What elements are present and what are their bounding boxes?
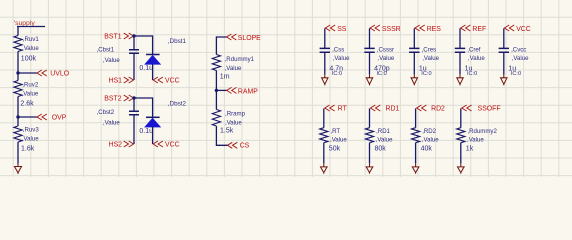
svg-text:,Rdummy1: ,Rdummy1 xyxy=(225,56,255,63)
svg-text:VCC: VCC xyxy=(516,26,531,33)
wire Css to ground xyxy=(324,52,326,74)
off-page connector RD1 xyxy=(371,105,381,111)
wire RT to RT xyxy=(323,108,325,127)
svg-text:,Value: ,Value xyxy=(422,136,439,143)
off-page connector REF xyxy=(461,25,471,31)
svg-text:80k: 80k xyxy=(375,145,387,152)
svg-text:BST2: BST2 xyxy=(104,95,121,102)
wire REF to Cref xyxy=(459,28,461,48)
ground arrow RD1 xyxy=(366,164,373,174)
svg-text:,Value: ,Value xyxy=(225,119,242,126)
off-page connector RES xyxy=(415,25,425,31)
ground arrow RT xyxy=(321,164,328,174)
svg-text:,Value: ,Value xyxy=(330,136,347,143)
svg-text:VCC: VCC xyxy=(165,77,180,84)
svg-text:,Value: ,Value xyxy=(467,136,484,143)
svg-text:,Value: ,Value xyxy=(377,55,394,62)
wire SS to Css xyxy=(324,28,326,48)
svg-text:,Value: ,Value xyxy=(333,55,350,62)
svg-text:,Cvcc: ,Cvcc xyxy=(511,47,526,54)
svg-text:,Value: ,Value xyxy=(22,45,39,52)
wire to UVLO connector xyxy=(18,72,37,74)
svg-text:,Cref: ,Cref xyxy=(467,47,481,54)
resistor Rdummy2 xyxy=(457,128,465,143)
svg-text:0.1u: 0.1u xyxy=(139,65,153,72)
capacitor Css xyxy=(320,48,330,52)
wire Rdummy1 to Rramp xyxy=(215,71,217,110)
svg-text:,Rramp: ,Rramp xyxy=(225,111,246,118)
svg-text:,Dbst1: ,Dbst1 xyxy=(168,38,187,45)
svg-text:SSSR: SSSR xyxy=(382,26,401,33)
wire Cvcc to ground xyxy=(503,52,505,74)
diode Dbst2 xyxy=(146,116,160,118)
svg-text:,Value: ,Value xyxy=(22,90,39,97)
svg-text:0.1u: 0.1u xyxy=(139,128,153,135)
svg-text:1m: 1m xyxy=(220,74,230,81)
svg-text:SS: SS xyxy=(337,26,347,33)
wire VCC to Cvcc xyxy=(503,28,505,48)
ground arrow SSSR xyxy=(366,75,372,86)
wire Ruv3 to ground xyxy=(17,142,19,164)
svg-text:HS2: HS2 xyxy=(109,141,123,148)
off-page connector VCC (section 2) xyxy=(153,141,163,147)
node BST1 junction xyxy=(132,34,135,37)
off-page connector SS xyxy=(325,25,335,31)
wire RT to ground xyxy=(323,143,325,164)
ground arrow SS xyxy=(322,75,328,86)
svg-text:,Ruv2: ,Ruv2 xyxy=(22,82,39,89)
svg-text:,Cbst2: ,Cbst2 xyxy=(97,109,115,116)
svg-text:,Cres: ,Cres xyxy=(422,47,437,54)
wire Rramp to CS xyxy=(216,126,227,145)
svg-text:,Cbst1: ,Cbst1 xyxy=(97,47,115,54)
svg-text:IC:0: IC:0 xyxy=(467,71,477,77)
svg-text:,RT: ,RT xyxy=(330,128,340,135)
capacitor Cbst2 xyxy=(129,111,139,114)
wire supply bar xyxy=(17,26,45,28)
svg-text:RES: RES xyxy=(427,26,442,33)
off-page connector RT xyxy=(325,105,335,111)
svg-text:,Value: ,Value xyxy=(376,136,393,143)
svg-text:,Value: ,Value xyxy=(512,55,529,62)
wire SSSR to Csssr xyxy=(369,28,371,48)
svg-text:,Css: ,Css xyxy=(332,47,344,54)
svg-text:IC:0: IC:0 xyxy=(421,71,431,77)
svg-text:1.6k: 1.6k xyxy=(21,145,35,152)
svg-text:,Value: ,Value xyxy=(468,55,485,62)
svg-text:RT: RT xyxy=(338,106,348,113)
capacitor Cbst1 xyxy=(129,50,139,53)
wire to OVP connector xyxy=(18,116,37,118)
svg-text:,RD2: ,RD2 xyxy=(422,128,436,135)
wire Dbst2 to VCC xyxy=(152,127,154,144)
wire Cres to ground xyxy=(413,52,415,74)
svg-text:VCC: VCC xyxy=(165,141,180,148)
svg-text:HS1: HS1 xyxy=(109,77,123,84)
ground arrow column1 xyxy=(15,164,22,174)
resistor Rdummy1 xyxy=(212,55,220,71)
svg-text:40k: 40k xyxy=(421,145,433,152)
svg-text:100k: 100k xyxy=(21,55,37,62)
wire BST1 top xyxy=(134,36,153,54)
svg-text:,Ruv3: ,Ruv3 xyxy=(23,127,40,134)
resistor Ruv1 xyxy=(14,36,22,52)
wire Dbst1 to VCC xyxy=(152,64,154,80)
node UVLO junction xyxy=(16,71,19,74)
wire SSOFF to Rdummy2 xyxy=(460,108,462,127)
off-page connector SSSR xyxy=(370,25,380,31)
svg-text:UVLO: UVLO xyxy=(50,70,69,77)
svg-text:RD1: RD1 xyxy=(386,106,400,113)
resistor RT xyxy=(320,128,328,143)
svg-text:IC:0: IC:0 xyxy=(377,71,387,77)
wire SLOPE to Rdummy1 xyxy=(216,37,226,55)
ground arrow RD2 xyxy=(412,164,419,174)
off-page connector VCC (section 1) xyxy=(153,77,163,83)
svg-text:CS: CS xyxy=(240,143,250,150)
ground arrow RES xyxy=(411,75,417,86)
svg-text:1.5k: 1.5k xyxy=(220,128,234,135)
off-page connector CS xyxy=(228,142,238,148)
svg-text:,Value: ,Value xyxy=(422,55,439,62)
svg-text:RAMP: RAMP xyxy=(238,88,258,95)
svg-text:REF: REF xyxy=(472,26,486,33)
wire RD1 to ground xyxy=(369,143,371,164)
svg-text:,Value: ,Value xyxy=(225,65,242,72)
off-page connector UVLO xyxy=(37,70,47,76)
diode Dbst1 xyxy=(146,54,160,56)
capacitor Cvcc xyxy=(499,48,509,52)
svg-text:,Csssr: ,Csssr xyxy=(377,47,394,54)
off-page connector VCC xyxy=(504,25,514,31)
svg-text:,Value: ,Value xyxy=(22,135,39,142)
svg-text:1k: 1k xyxy=(466,145,474,152)
svg-text:,Dbst2: ,Dbst2 xyxy=(168,101,187,108)
wire Rdummy2 to ground xyxy=(460,143,462,164)
wire RD2 to RD2 xyxy=(415,108,417,127)
capacitor Cres xyxy=(409,48,419,52)
svg-text:IC:0: IC:0 xyxy=(332,71,342,77)
off-page connector SLOPE xyxy=(227,34,237,40)
wire Csssr to ground xyxy=(369,52,371,74)
svg-text:BST1: BST1 xyxy=(104,33,121,40)
svg-text:,RD1: ,RD1 xyxy=(376,128,390,135)
svg-text:RD2: RD2 xyxy=(431,106,445,113)
ground arrow VCC xyxy=(501,75,507,86)
resistor Rramp xyxy=(212,110,220,127)
svg-text:,Rdummy2: ,Rdummy2 xyxy=(467,128,497,135)
wire Cbst1 to HS1 xyxy=(133,53,135,80)
resistor Ruv2 xyxy=(14,81,22,97)
resistor RD1 xyxy=(365,128,373,143)
node RAMP junction xyxy=(215,89,218,92)
svg-text:,Ruv1: ,Ruv1 xyxy=(23,36,40,43)
wire BST2 top xyxy=(134,98,153,117)
node BST2 junction xyxy=(132,96,135,99)
off-page connector RAMP xyxy=(227,87,237,93)
svg-text:SSOFF: SSOFF xyxy=(478,106,501,113)
resistor RD2 xyxy=(412,128,420,143)
svg-text:2.6k: 2.6k xyxy=(20,101,34,108)
wire Cbst2 to HS2 xyxy=(133,115,135,144)
svg-text:,Value: ,Value xyxy=(103,120,120,127)
wire supply to Ruv1 xyxy=(17,27,19,36)
wire Cref to ground xyxy=(459,52,461,74)
resistor Ruv3 xyxy=(14,126,22,142)
svg-text:IC:0: IC:0 xyxy=(511,71,521,77)
capacitor Csssr xyxy=(364,48,374,52)
wire RD2 to ground xyxy=(415,143,417,164)
off-page connector RD2 xyxy=(417,105,427,111)
capacitor Cref xyxy=(455,48,465,52)
node OVP junction xyxy=(16,115,19,118)
wire to RAMP connector xyxy=(216,89,226,91)
svg-text:OVP: OVP xyxy=(52,115,67,122)
ground arrow SSOFF xyxy=(458,164,465,174)
wire Ruv1 to Ruv2 xyxy=(17,52,19,81)
svg-text:50k: 50k xyxy=(329,145,341,152)
svg-text:SLOPE: SLOPE xyxy=(238,35,261,42)
svg-text:,Value: ,Value xyxy=(103,57,120,64)
off-page connector SSOFF xyxy=(462,105,472,111)
wire Ruv2 to Ruv3 xyxy=(17,97,19,127)
wire RD1 to RD1 xyxy=(369,108,371,127)
off-page connector OVP xyxy=(37,114,47,120)
ground arrow REF xyxy=(457,75,463,86)
wire RES to Cres xyxy=(413,28,415,48)
